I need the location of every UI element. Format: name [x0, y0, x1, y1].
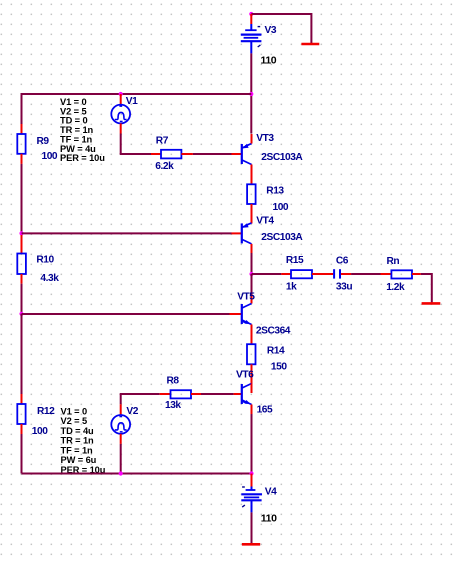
resistor R14 [247, 344, 256, 364]
capacitor C6 right plate [339, 269, 341, 278]
wire R10 bottom pin [21, 274, 23, 284]
svg-text:165: 165 [257, 405, 273, 416]
wire bottom rail [22, 473, 252, 475]
ground right [422, 302, 441, 305]
battery V4 plate long2 [241, 499, 261, 501]
battery V4 plus mark [242, 505, 245, 507]
wire VT6 emitter to bottom rail [251, 414, 253, 474]
battery V4 plate long1 [241, 493, 262, 495]
wire R8 to VT6 base [201, 393, 234, 395]
transistor VT3 emitter arrow (points to bar) [243, 144, 249, 149]
wire R14 bottom pin [251, 364, 253, 383]
node junction V2 bottom [119, 471, 123, 475]
battery V3 plate short [245, 29, 256, 31]
battery V4 bottom lead [251, 500, 253, 512]
svg-text:R8: R8 [167, 376, 180, 387]
svg-text:TD = 4u: TD = 4u [61, 426, 95, 436]
svg-text:1.2k: 1.2k [386, 282, 405, 293]
pulse source V1 circle [111, 105, 130, 124]
svg-text:R13: R13 [266, 186, 284, 197]
wire V3 top pin [250, 14, 252, 24]
wire Rn left pin [381, 273, 392, 275]
svg-text:2SC103A: 2SC103A [261, 152, 303, 163]
transistor VT4 emitter/collector top lead [242, 223, 252, 228]
transistor VT6 base bar [241, 384, 243, 404]
node junction V4 top [249, 471, 253, 475]
ground bottom [242, 543, 260, 546]
wire R7 to VT3 base [193, 153, 232, 155]
wire VT5 top pin [251, 295, 253, 304]
node junction left column VT5 base rail [19, 312, 23, 316]
svg-text:V1 = 0: V1 = 0 [61, 406, 88, 416]
wire V1 bottom pin [120, 123, 122, 133]
resistor R8 [171, 390, 192, 398]
transistor VT3 emitter/collector bottom lead [242, 160, 252, 165]
pulse source V2 waveform [115, 423, 127, 430]
svg-text:110: 110 [261, 513, 277, 525]
svg-text:R7: R7 [156, 136, 169, 147]
wire VT5 bottom pin [251, 325, 253, 345]
wire left column node to R12 [21, 314, 23, 394]
svg-text:33u: 33u [336, 282, 352, 293]
node junction left column VT4 base rail [19, 231, 23, 235]
wire Rn to ground corner [421, 273, 432, 275]
wire top node to ground stub [251, 13, 311, 15]
wire R8 right pin [191, 393, 201, 395]
wire V1 to R7 rail corner [120, 134, 122, 155]
wire VT6 base pin [234, 393, 241, 395]
wire R15 left pin [281, 273, 291, 275]
resistor R9 [17, 134, 25, 154]
node top junction at V3 plus [249, 12, 253, 16]
wire V3 to VT3 emitter [250, 53, 252, 133]
wire R10 top pin [21, 244, 23, 254]
wire V2 bottom pin [120, 434, 122, 444]
wire VT4 bottom pin [251, 244, 253, 253]
wire left column top corner [21, 93, 23, 124]
transistor VT5 base bar [241, 304, 243, 324]
svg-text:TR = 1n: TR = 1n [61, 436, 95, 446]
transistor VT5 emitter/collector bottom lead [242, 320, 252, 325]
wire R8 rail from V2 [120, 393, 160, 395]
svg-text:V1: V1 [126, 96, 138, 107]
wire C6 to Rn [351, 273, 380, 275]
wire V4 top pin [251, 474, 253, 487]
battery V4 top lead [251, 487, 253, 491]
wire VT6 bottom pin [251, 405, 253, 415]
resistor R12 [17, 404, 25, 424]
wire VT4 base pin [232, 232, 242, 234]
wire R12 top pin [21, 394, 23, 404]
svg-text:VT4: VT4 [256, 216, 274, 227]
svg-text:Rn: Rn [387, 256, 400, 267]
resistor R10 [17, 254, 26, 275]
svg-text:R14: R14 [267, 346, 285, 357]
resistor Rn [391, 270, 412, 278]
wire left column R10 to node [21, 284, 23, 314]
wire VT6 top pin [251, 384, 253, 394]
svg-text:150: 150 [271, 362, 287, 373]
resistor R13 [247, 184, 256, 204]
wire left column node to R10 [21, 235, 23, 244]
wire Rn right pin [412, 273, 421, 275]
svg-text:100: 100 [273, 202, 289, 213]
wire R13 top pin [251, 174, 253, 184]
battery V3 plus mark [258, 45, 261, 47]
pulse source V1 waveform [115, 112, 127, 119]
svg-text:V3: V3 [265, 25, 277, 36]
svg-text:R15: R15 [286, 255, 304, 266]
transistor VT6 emitter arrow (points out) [245, 400, 251, 404]
wire VT5 base rail [22, 313, 230, 315]
battery V4 plate short [246, 489, 256, 491]
svg-text:2SC364: 2SC364 [256, 325, 291, 336]
svg-text:PW = 6u: PW = 6u [61, 455, 97, 465]
transistor VT4 base bar [241, 223, 243, 243]
transistor VT6 emitter/collector top lead [242, 384, 252, 389]
svg-text:R9: R9 [37, 136, 50, 147]
wire R15 right pin [312, 273, 333, 275]
svg-text:C6: C6 [336, 256, 349, 267]
wire VT3 top pin [251, 134, 253, 144]
battery V4 minus mark [242, 486, 245, 488]
pulse source V2 circle [111, 415, 130, 434]
svg-text:PER = 10u: PER = 10u [60, 153, 105, 163]
node junction VT4/VT5/R15 [249, 272, 253, 276]
svg-text:100: 100 [42, 151, 58, 162]
wire VT4 base rail [22, 232, 232, 234]
wire C6 right pin [341, 273, 351, 275]
svg-text:V2: V2 [126, 406, 138, 417]
svg-text:VT5: VT5 [237, 292, 255, 303]
node junction top wire / center column [249, 92, 253, 96]
svg-text:6.2k: 6.2k [155, 161, 174, 172]
svg-text:R12: R12 [37, 406, 55, 417]
battery V3 bottom lead [250, 41, 252, 53]
svg-text:VT6: VT6 [236, 369, 254, 380]
wire VT4 to R15 node [251, 253, 253, 274]
resistor R7 [161, 150, 181, 159]
svg-text:4.3k: 4.3k [40, 273, 59, 284]
svg-text:110: 110 [261, 54, 277, 66]
svg-text:VT3: VT3 [256, 133, 274, 144]
wire R13 bottom pin [251, 204, 253, 224]
wire R7 left pin [151, 153, 161, 155]
svg-text:V4: V4 [265, 487, 277, 498]
wire V1 top pin [120, 94, 122, 105]
ground top right [301, 43, 319, 46]
wire V2 to bottom rail [120, 444, 122, 474]
transistor VT5 emitter/collector top lead [242, 304, 252, 309]
svg-text:1k: 1k [286, 282, 297, 293]
wire node to VT5 collector [251, 274, 253, 295]
wire V2 top pin [120, 404, 122, 415]
battery V3 top lead [250, 24, 252, 30]
battery V3 plate long1 [241, 33, 262, 35]
transistor VT6 emitter/collector bottom lead [242, 400, 252, 405]
wire VT3 bottom pin [251, 165, 253, 175]
battery V3 plate mid [244, 37, 259, 39]
svg-text:100: 100 [32, 426, 48, 437]
transistor VT4 emitter/collector bottom lead [242, 239, 252, 244]
transistor VT4 emitter arrow (points to bar) [243, 223, 249, 228]
resistor R15 [291, 270, 312, 278]
svg-text:13k: 13k [165, 400, 181, 411]
transistor VT3 emitter/collector top lead [242, 144, 252, 149]
transistor VT3 base bar [241, 144, 243, 164]
wire R8 left pin [160, 393, 171, 395]
wire V4 to bottom ground [251, 512, 253, 543]
wire R9 bottom pin [21, 154, 23, 164]
battery V3 minus mark [258, 26, 261, 28]
wire VT3 base pin [232, 153, 242, 155]
transistor VT5 emitter arrow (points out) [245, 320, 251, 324]
node junction V1 top [119, 92, 123, 96]
battery V3 plate long2 [241, 40, 262, 42]
wire left column R9 to node [21, 164, 23, 235]
wire VT5 base pin [230, 313, 242, 315]
svg-text:R10: R10 [36, 255, 54, 266]
wire R12 bottom pin [21, 424, 23, 434]
wire left column bottom corner [21, 434, 23, 474]
capacitor C6 left plate [333, 269, 335, 278]
wire R7 right pin [181, 153, 193, 155]
pulse source V2 top corner wire [120, 394, 122, 404]
svg-text:TF = 1n: TF = 1n [61, 445, 94, 455]
wire node to R15 [252, 273, 282, 275]
svg-text:2SC103A: 2SC103A [261, 232, 303, 243]
wire R9 top pin [21, 124, 23, 134]
wire top rail [22, 93, 252, 95]
battery V4 plate mid [244, 496, 259, 498]
svg-text:V2 = 5: V2 = 5 [61, 416, 88, 426]
